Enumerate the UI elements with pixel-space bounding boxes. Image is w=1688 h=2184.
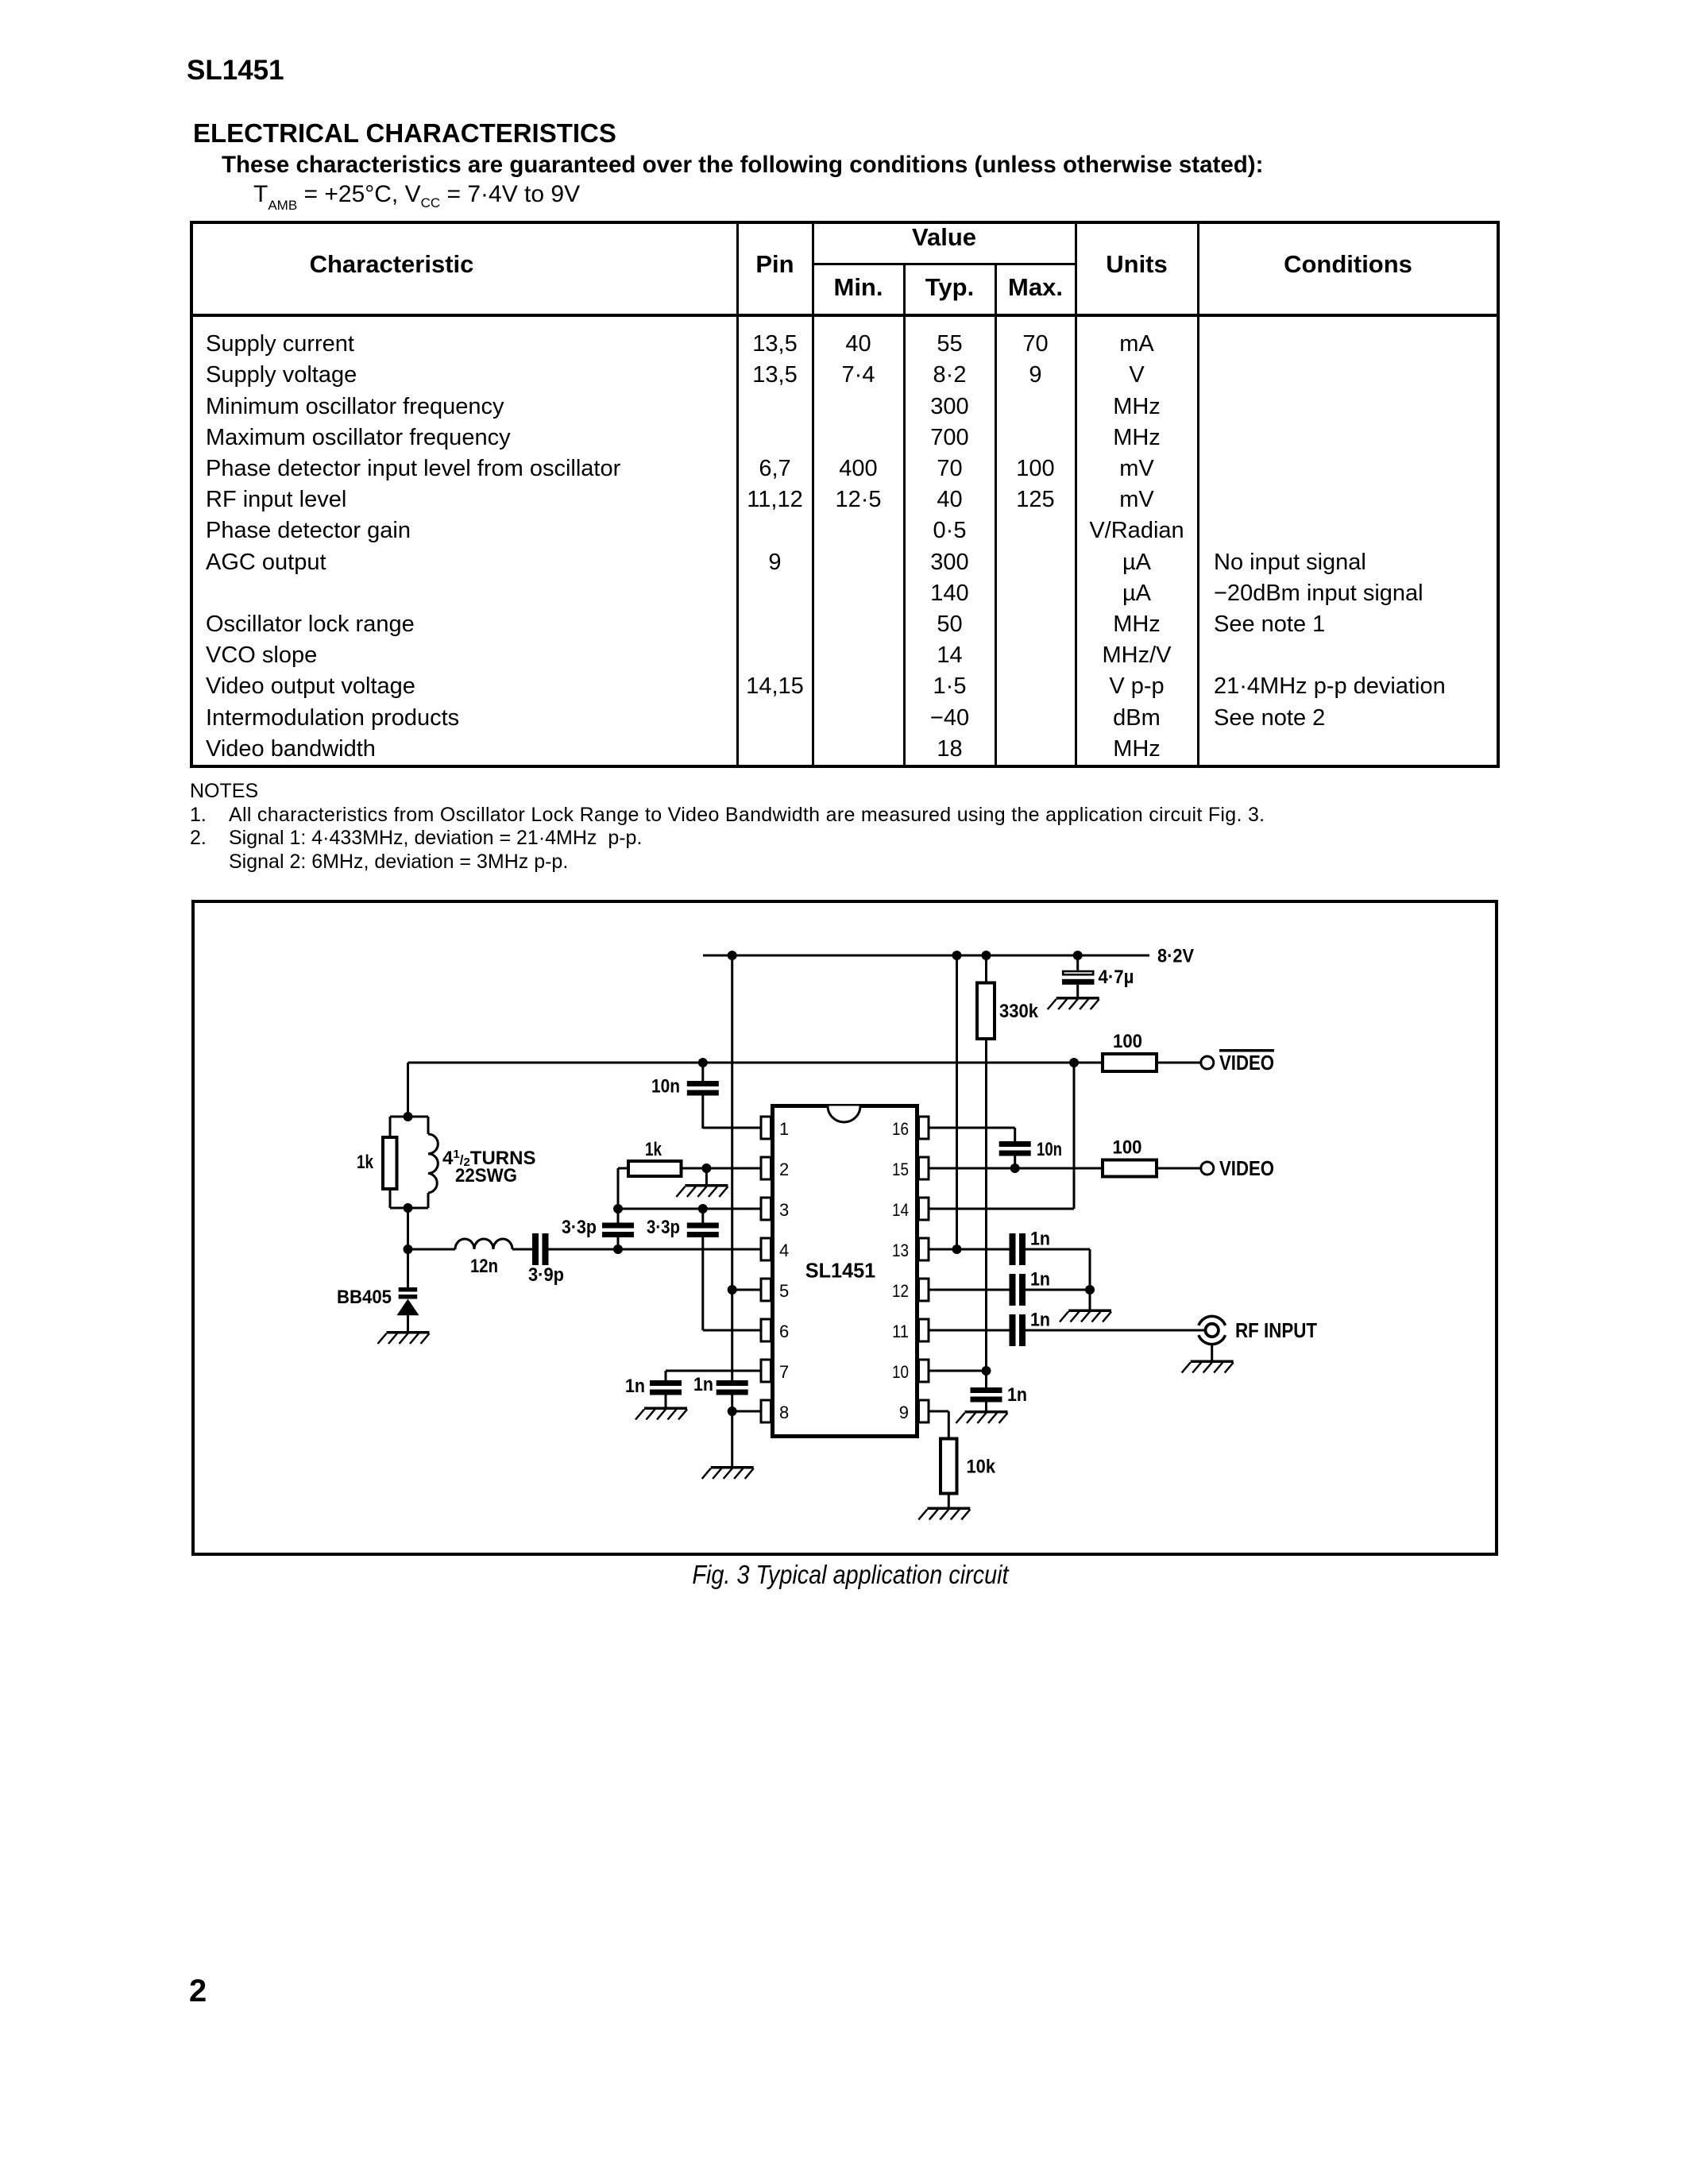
svg-text:100: 100 bbox=[1113, 1137, 1142, 1159]
wire to pin 5 bbox=[732, 1289, 761, 1291]
svg-text:VIDEO: VIDEO bbox=[1219, 1158, 1274, 1180]
node: rail junction at 4.7u bbox=[1073, 951, 1083, 960]
svg-text:3·9p: 3·9p bbox=[528, 1264, 564, 1286]
svg-text:8·2V: 8·2V bbox=[1157, 946, 1194, 967]
wire pin13 cap to ground branch bbox=[1026, 1248, 1090, 1251]
pin box 12 bbox=[919, 1279, 929, 1301]
node: rail junction at 330k bbox=[982, 951, 991, 960]
svg-text:1k: 1k bbox=[645, 1139, 662, 1160]
IC notch bbox=[828, 1106, 860, 1123]
pin box 10 bbox=[919, 1360, 929, 1382]
capacitor 1n (pin 12 series) bbox=[1010, 1274, 1016, 1306]
capacitor 10n (pin 16 to pin 15) bbox=[1014, 1128, 1016, 1141]
svg-text:3·3p: 3·3p bbox=[647, 1217, 680, 1238]
wire to terminal bbox=[1157, 1062, 1201, 1064]
capacitor 1n (left of pin 8) bbox=[717, 1380, 748, 1386]
ground bbox=[956, 1410, 1008, 1423]
wire to pin 4 bbox=[549, 1248, 762, 1251]
svg-text:SL1451: SL1451 bbox=[805, 1259, 876, 1283]
pin box 9 bbox=[919, 1400, 929, 1422]
wire: VIDEO-bar output line bbox=[408, 1062, 1102, 1064]
svg-text:7: 7 bbox=[779, 1362, 789, 1382]
page number bbox=[189, 1974, 207, 2009]
wire: rail feed down to pin 13 bbox=[956, 955, 958, 1249]
svg-text:100: 100 bbox=[1113, 1031, 1142, 1052]
svg-text:1n: 1n bbox=[1030, 1229, 1050, 1250]
svg-text:10: 10 bbox=[892, 1362, 909, 1382]
resistor 100 (VIDEO) bbox=[1103, 1160, 1157, 1177]
pin box 15 bbox=[919, 1157, 929, 1179]
node: pin 8 junction bbox=[728, 1406, 737, 1416]
resistor 10k bbox=[941, 1439, 957, 1494]
pin box 7 bbox=[761, 1360, 771, 1382]
svg-text:10k: 10k bbox=[967, 1457, 996, 1478]
node: pin 5 junction bbox=[728, 1285, 737, 1295]
wire: VCC branch down left of IC bbox=[731, 955, 733, 1380]
svg-text:12n: 12n bbox=[470, 1256, 498, 1277]
pin box 13 bbox=[919, 1238, 929, 1260]
node: tank bottom bbox=[404, 1203, 413, 1213]
wire to pin 6 bbox=[703, 1329, 761, 1332]
pin box 4 bbox=[761, 1238, 771, 1260]
wire pin 9 bbox=[929, 1410, 948, 1413]
svg-text:1k: 1k bbox=[357, 1152, 374, 1173]
svg-text:15: 15 bbox=[892, 1160, 909, 1179]
wire to pin 1 bbox=[703, 1127, 761, 1129]
node: rail junction to pin 5 branch bbox=[728, 951, 737, 960]
terminal: VIDEO output bbox=[1201, 1162, 1214, 1175]
terminal: VIDEO-bar output bbox=[1201, 1056, 1214, 1069]
capacitor 3.3p no.1 bbox=[617, 1237, 620, 1249]
svg-text:9: 9 bbox=[899, 1403, 909, 1422]
pin box 3 bbox=[761, 1198, 771, 1220]
oscillator tank: top node bbox=[404, 1112, 413, 1121]
wire: 8.2V supply rail bbox=[703, 955, 1149, 957]
wire pin 11 bbox=[929, 1329, 1010, 1332]
resistor 330k bbox=[985, 955, 987, 982]
wire pin 3 line bbox=[618, 1208, 761, 1210]
svg-text:12: 12 bbox=[892, 1281, 909, 1301]
connector: RF INPUT bbox=[1199, 1316, 1226, 1325]
node: junction pin 15 line bbox=[1010, 1163, 1020, 1173]
circuit frame bbox=[193, 901, 1497, 1554]
pin box 1 bbox=[761, 1117, 771, 1139]
node: rail junction to pin 13 feed bbox=[952, 951, 962, 960]
svg-text:6: 6 bbox=[779, 1322, 789, 1341]
ground bbox=[1182, 1360, 1234, 1373]
ground bbox=[1060, 1310, 1111, 1322]
wire connector to ground bbox=[1211, 1345, 1213, 1360]
svg-text:8: 8 bbox=[779, 1403, 789, 1422]
wire tank bottom bus bbox=[390, 1207, 428, 1210]
resistor 1k (pin 2 bias) bbox=[617, 1168, 620, 1209]
wire below cap to ground bbox=[731, 1395, 733, 1467]
wire: pin 14 to video line bbox=[929, 1208, 1074, 1210]
node: rail feed junction at pin 13 bbox=[952, 1244, 962, 1254]
svg-text:VIDEO: VIDEO bbox=[1219, 1052, 1274, 1075]
wire pin 13 bbox=[929, 1248, 1010, 1251]
svg-text:11: 11 bbox=[892, 1322, 909, 1341]
ground bbox=[676, 1184, 728, 1197]
ground bbox=[635, 1407, 687, 1420]
pin box 5 bbox=[761, 1279, 771, 1301]
wire pin 12 bbox=[929, 1289, 1010, 1291]
IC SL1451 body bbox=[773, 1106, 917, 1437]
node: pin 2 ground junction bbox=[701, 1163, 711, 1173]
capacitor 1n (pin 13 series) bbox=[1010, 1233, 1016, 1265]
ground bbox=[918, 1507, 970, 1520]
svg-text:1n: 1n bbox=[693, 1374, 713, 1395]
wire stub to ground bbox=[1089, 1290, 1091, 1310]
wire pin 7 bbox=[666, 1370, 761, 1372]
node: junction on pin 3 line bbox=[613, 1204, 623, 1214]
svg-text:10n: 10n bbox=[1037, 1139, 1062, 1160]
varactor diode BB405 bbox=[407, 1249, 409, 1287]
wire pin 16 bbox=[929, 1127, 1015, 1129]
svg-text:330k: 330k bbox=[999, 1001, 1039, 1022]
wire stub to ground bbox=[705, 1168, 708, 1184]
svg-text:BB405: BB405 bbox=[337, 1287, 392, 1308]
node: pin 14 junction on video line bbox=[1069, 1058, 1079, 1067]
svg-text:1n: 1n bbox=[1030, 1269, 1050, 1291]
capacitor 10n (pin 1 coupling) bbox=[701, 1063, 704, 1081]
wire: 330k to pin 10 and decoupling bbox=[985, 1039, 987, 1387]
pin box 11 bbox=[919, 1319, 929, 1341]
node: 3.3p no.2 junction on pin 3 line bbox=[698, 1204, 708, 1214]
pin box 16 bbox=[919, 1117, 929, 1139]
wire to pin 8 bbox=[732, 1410, 761, 1413]
svg-text:1n: 1n bbox=[1007, 1384, 1027, 1406]
svg-text:4·7µ: 4·7µ bbox=[1099, 967, 1134, 988]
svg-text:2: 2 bbox=[779, 1160, 789, 1179]
ground bbox=[702, 1466, 754, 1479]
svg-text:3·3p: 3·3p bbox=[562, 1217, 597, 1238]
wire tank to varactor node bbox=[407, 1208, 409, 1249]
svg-text:16: 16 bbox=[892, 1119, 909, 1139]
wire to terminal bbox=[1157, 1167, 1201, 1170]
svg-text:5: 5 bbox=[779, 1281, 789, 1301]
svg-text:14: 14 bbox=[892, 1200, 909, 1220]
svg-text:RF INPUT: RF INPUT bbox=[1235, 1320, 1317, 1342]
capacitor 1n (pin 10 decoupling) bbox=[971, 1387, 1002, 1393]
wire to RF connector bbox=[1026, 1329, 1205, 1332]
pin box 2 bbox=[761, 1157, 771, 1179]
svg-text:1n: 1n bbox=[625, 1376, 645, 1397]
wire tank top bus bbox=[390, 1116, 428, 1118]
node: 10n junction on video line bbox=[698, 1058, 708, 1067]
inductor 12n bbox=[408, 1248, 456, 1251]
resistor 1k (tank damping) bbox=[389, 1117, 392, 1137]
node: pins 12/13 ground junction bbox=[1085, 1285, 1095, 1295]
inductor 4.5 turns 22SWG bbox=[427, 1117, 430, 1134]
wire pin 15 to resistor bbox=[929, 1167, 1101, 1170]
capacitor 3.3p no.2 bbox=[701, 1209, 704, 1223]
pin box 8 bbox=[761, 1400, 771, 1422]
capacitor 3.9p (series) bbox=[532, 1233, 539, 1265]
svg-text:22SWG: 22SWG bbox=[455, 1165, 517, 1187]
node: varactor junction bbox=[404, 1244, 413, 1254]
wire pin 10 bbox=[929, 1370, 987, 1372]
pin box 14 bbox=[919, 1198, 929, 1220]
svg-text:4: 4 bbox=[779, 1241, 789, 1260]
svg-text:1: 1 bbox=[779, 1119, 789, 1139]
capacitor 4.7u (electrolytic) bbox=[1076, 955, 1079, 970]
wire: down to oscillator tank bbox=[407, 1063, 409, 1117]
svg-text:10n: 10n bbox=[651, 1076, 680, 1098]
pin box 6 bbox=[761, 1319, 771, 1341]
ground bbox=[378, 1331, 430, 1344]
svg-text:3: 3 bbox=[779, 1200, 789, 1220]
svg-text:13: 13 bbox=[892, 1241, 909, 1260]
capacitor 1n (pin 7 decoupling) bbox=[665, 1371, 667, 1380]
resistor 100 (VIDEO-bar) bbox=[1103, 1054, 1157, 1071]
node: 3.3p no.1 junction on pin 4 line bbox=[613, 1244, 623, 1254]
node: pin 10 junction bbox=[982, 1366, 991, 1376]
svg-text:1n: 1n bbox=[1030, 1310, 1050, 1331]
capacitor 1n (pin 11 series) bbox=[1010, 1314, 1016, 1346]
ground bbox=[1048, 997, 1099, 1009]
